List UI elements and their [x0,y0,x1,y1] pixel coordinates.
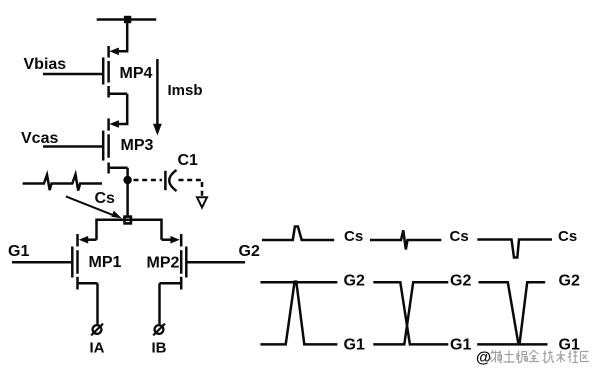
waveform pair 3 G2 dip [479,282,546,343]
current arrow Imsb [153,59,162,136]
svg-text:G2: G2 [450,273,471,290]
svg-text:G1: G1 [344,337,365,354]
transistor MP1 [72,234,97,290]
svg-text:Cs: Cs [95,190,116,207]
wire rail to MP4 source [115,20,127,52]
wire Vcas gate lead [43,145,102,148]
svg-text:G1: G1 [559,337,580,354]
wire noisy line with glitches [23,175,102,191]
svg-text:MP2: MP2 [147,255,180,272]
wire source coupling network [97,220,162,240]
svg-text:@: @ [476,350,491,367]
wire MP1 drain to IA [96,283,99,324]
wire G2 gate lead [187,261,245,264]
waveform pair 3 G1 line [477,343,547,346]
wire to MP1 source [86,238,97,241]
svg-text:Cs: Cs [558,228,577,245]
waveform pair 1 G1 pulse [260,282,337,345]
svg-text:C1: C1 [178,152,199,169]
waveform Cs glitch 2 [370,230,441,249]
svg-text:IB: IB [152,340,167,357]
junction dot drain node [123,176,131,184]
waveform pair 1 G2 line [260,281,337,284]
svg-text:G2: G2 [559,273,580,290]
wire dashed C1 to ground [179,180,203,196]
wire to MP2 source [162,238,174,241]
terminal IA [91,324,103,336]
watermark [476,350,589,367]
wire Vbias gate lead [43,73,102,76]
svg-text:MP3: MP3 [121,137,154,154]
annotation arrow to Cs node [66,196,122,218]
svg-text:G2: G2 [239,243,260,260]
svg-text:G1: G1 [450,337,471,354]
wire MP3 drain to node [126,168,129,177]
wire MP4 drain to MP3 source [115,94,127,124]
svg-text:MP1: MP1 [89,254,122,271]
svg-text:Cs: Cs [450,228,469,245]
svg-text:G2: G2 [344,273,365,290]
junction dot on VDD rail [124,16,131,23]
node Cs (open square) [125,217,131,224]
ground (open triangle) [197,197,207,207]
svg-text:MP4: MP4 [120,65,153,82]
svg-text:Vbias: Vbias [24,56,67,73]
waveform Cs pulse 1 [262,227,334,241]
transistor MP3 [103,118,127,173]
wire G1 gate lead [12,261,71,264]
wire VDD rail [97,18,157,21]
capacitor C1 [165,170,176,191]
wire node to Cs node [126,184,129,217]
terminal IB [153,324,165,336]
wire MP2 drain to IB [158,283,161,324]
svg-text:Cs: Cs [344,228,363,245]
transistor MP4 [103,46,127,98]
waveform pair 2 crossing [373,282,448,344]
wire dashed node to C1 [134,179,163,182]
transistor MP2 [160,234,187,290]
svg-text:G1: G1 [8,243,29,260]
svg-text:IA: IA [90,340,105,357]
svg-text:Vcas: Vcas [21,130,58,147]
svg-text:Imsb: Imsb [168,82,203,99]
waveform Cs notch 3 [477,240,552,258]
